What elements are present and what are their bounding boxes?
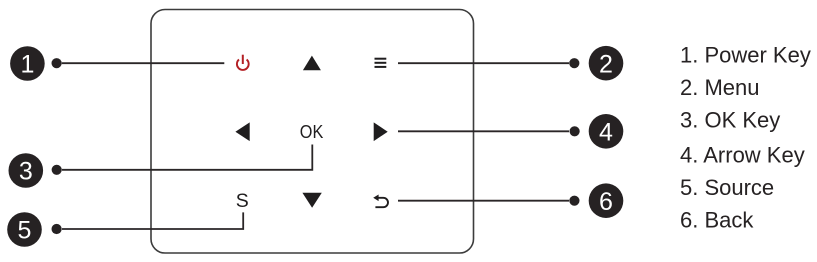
svg-text:1. Power Key: 1. Power Key [680,42,811,67]
svg-text:OK: OK [300,122,324,142]
svg-text:2. Menu: 2. Menu [680,75,760,100]
svg-text:3: 3 [19,158,33,186]
svg-text:3. OK Key: 3. OK Key [680,107,780,132]
svg-text:4. Arrow Key: 4. Arrow Key [680,142,805,167]
svg-text:1: 1 [20,51,34,79]
svg-text:5: 5 [18,217,32,245]
svg-text:6: 6 [599,188,613,216]
svg-text:2: 2 [599,50,613,78]
svg-text:6. Back: 6. Back [680,208,754,233]
svg-text:5. Source: 5. Source [680,175,774,200]
svg-text:4: 4 [599,119,613,147]
svg-text:S: S [236,190,249,212]
